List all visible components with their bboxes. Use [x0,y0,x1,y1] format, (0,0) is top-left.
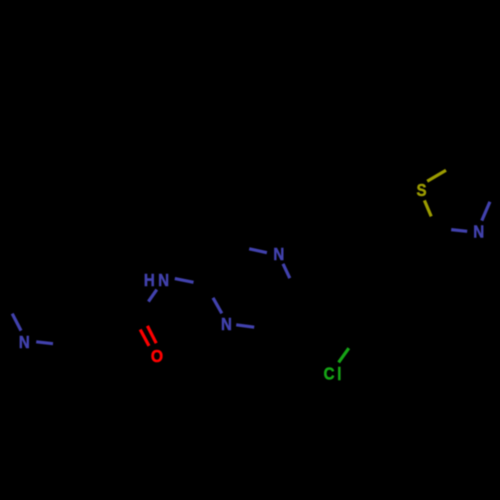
wire: pyridine N to right carbon (blue half-bond) [36,342,53,344]
wire: pyrazine N1 to C3 left (blue half-bond) [249,249,267,253]
svg-text:S: S [416,180,426,201]
wire: C=O double bond line 2 (red half-bond) [140,330,149,346]
svg-text:N: N [221,314,232,335]
svg-text:O: O [151,346,163,366]
svg-text:N: N [273,244,284,265]
svg-text:N: N [19,332,30,353]
svg-text:l: l [337,364,341,385]
wire: pyridine N to upper-left carbon (blue half-bond) [12,314,21,331]
wire: Cl to benzene carbon (green half-bond) [339,348,349,362]
wire: C=O double bond line 1 (red half-bond) [147,326,156,343]
wire: pyrazine N4 to C5 right (blue half-bond) [236,325,254,327]
svg-text:C: C [324,363,335,384]
wire: thiazole S to C2 down (olive half-bond) [424,200,431,216]
svg-text:H: H [144,270,155,291]
wire: pyrazine N4 to C2 upper-left (blue half-bond) [213,298,222,314]
svg-text:N: N [473,221,484,242]
wire: pyrazine N1 to C6 lower-right (blue half-bond) [283,264,290,278]
wire: thiazole S to C5 upper-right (olive half-bond) [427,170,446,181]
wire: thiazole N3 to C2 left (blue half-bond) [451,230,467,232]
svg-text:N: N [158,270,169,291]
wire: thiazole N3 to C4 upper-right (blue half-bond) [482,202,490,221]
wire: amide N-H down to carbonyl carbon (blue half-bond) [148,290,156,302]
wire: amide N-H to pyrazine C2 (blue half-bond) [175,279,194,283]
